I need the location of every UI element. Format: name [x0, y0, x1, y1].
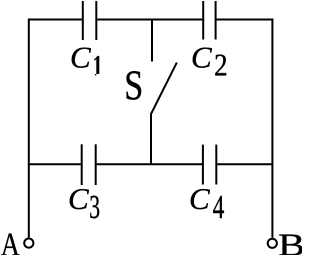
- svg-text:C: C: [189, 181, 210, 216]
- svg-text:3: 3: [89, 189, 100, 226]
- svg-text:C: C: [191, 39, 212, 74]
- svg-text:S: S: [124, 63, 143, 109]
- svg-text:2: 2: [214, 49, 228, 83]
- svg-text:A: A: [1, 226, 20, 255]
- svg-text:B: B: [278, 227, 302, 255]
- svg-text:4: 4: [213, 189, 225, 226]
- svg-text:C: C: [70, 39, 91, 74]
- svg-text:C: C: [68, 181, 89, 216]
